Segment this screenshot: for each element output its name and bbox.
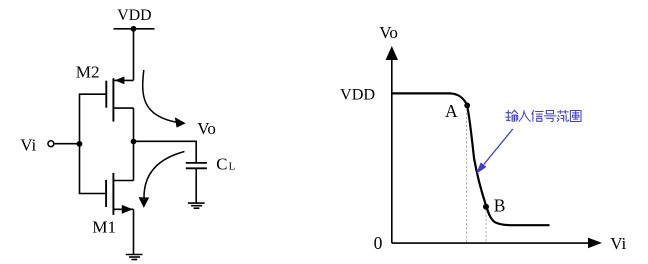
svg-text:Vo: Vo xyxy=(379,23,398,42)
node A dot xyxy=(464,103,470,109)
node B dot xyxy=(483,204,489,210)
svg-text:Vo: Vo xyxy=(197,119,216,138)
wire VDD rail to M2 source xyxy=(133,29,135,81)
wire input terminal to gate node xyxy=(54,143,79,145)
blue annotation text: 输入信号范围 (drawn strokes) xyxy=(506,110,581,121)
capacitor CL xyxy=(186,163,207,168)
charge current curved arrow xyxy=(143,70,186,128)
wire capacitor to ground xyxy=(195,168,197,203)
svg-text:0: 0 xyxy=(374,233,383,253)
char 号 xyxy=(544,111,556,122)
dotted guide line below B xyxy=(485,211,487,243)
wire output node to load capacitor xyxy=(134,141,197,163)
wire M2 drain to output node xyxy=(133,108,135,141)
blue annotation arrow xyxy=(476,129,513,174)
char 范 xyxy=(557,110,568,121)
VDD power rail xyxy=(114,28,155,30)
char 入 xyxy=(519,111,530,122)
svg-text:B: B xyxy=(494,196,506,216)
svg-text:VDD: VDD xyxy=(117,7,151,24)
svg-text:M2: M2 xyxy=(76,62,100,81)
x-axis (Vi) xyxy=(392,238,602,249)
y-axis (Vo) xyxy=(386,46,398,243)
transistor M2 (PMOS) xyxy=(106,77,133,122)
char 围 xyxy=(570,111,581,122)
node: output junction dot xyxy=(131,139,137,145)
wire M1 source to ground xyxy=(133,209,135,254)
discharge current curved arrow xyxy=(139,152,185,208)
svg-text:M1: M1 xyxy=(92,217,116,236)
transfer curve xyxy=(392,93,550,225)
svg-text:L: L xyxy=(229,161,236,173)
ground (below CL) xyxy=(188,203,205,208)
dotted guide line below A xyxy=(466,109,468,243)
wire gate bus (M2 gate to M1 gate) xyxy=(80,94,107,193)
wire M1 drain to output node xyxy=(133,142,135,181)
svg-text:VDD: VDD xyxy=(340,86,375,104)
char 输 xyxy=(506,110,518,121)
node: VDD junction dot xyxy=(131,26,137,32)
svg-text:C: C xyxy=(216,154,227,173)
transistor M1 (NMOS) xyxy=(106,173,133,215)
node: input junction dot xyxy=(77,141,83,147)
svg-text:A: A xyxy=(445,101,458,121)
svg-text:Vi: Vi xyxy=(20,136,36,155)
ground (below M1) xyxy=(126,255,143,260)
char 信 xyxy=(532,110,543,121)
input terminal circle xyxy=(48,141,54,147)
svg-text:Vi: Vi xyxy=(610,234,626,253)
label CL xyxy=(216,154,235,173)
